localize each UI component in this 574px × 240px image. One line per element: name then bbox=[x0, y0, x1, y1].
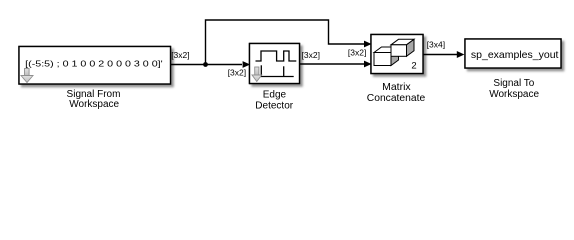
Matrix Concatenate icon: lower-left cuboid bbox=[374, 47, 399, 66]
block name label Signal To Workspace bbox=[489, 78, 539, 100]
svg-text:Workspace: Workspace bbox=[489, 89, 539, 100]
gray down-arrow icon in Signal From Workspace bbox=[21, 69, 33, 83]
svg-text:[3x2]: [3x2] bbox=[171, 50, 189, 60]
block name label Signal From Workspace bbox=[67, 89, 121, 110]
wire Edge Detector to Matrix Concatenate input 2 bbox=[300, 61, 372, 68]
wire Matrix Concatenate to Signal To Workspace bbox=[423, 51, 464, 58]
Edge Detector icon: output baseline bbox=[255, 76, 294, 78]
gray down-arrow icon in Edge Detector bbox=[252, 67, 262, 82]
svg-text:Matrix: Matrix bbox=[382, 81, 411, 93]
wire Signal From Workspace to Edge Detector bbox=[171, 61, 251, 68]
block Edge Detector bbox=[250, 44, 300, 84]
svg-text:[(-5:5) ; 0 1 0 0 2 0 0 0 3 0: [(-5:5) ; 0 1 0 0 2 0 0 0 3 0 0]' bbox=[25, 59, 163, 69]
svg-text:Workspace: Workspace bbox=[69, 99, 119, 110]
Edge Detector icon: input square wave bbox=[256, 51, 297, 61]
block Signal To Workspace bbox=[465, 39, 561, 68]
svg-text:Signal To: Signal To bbox=[493, 78, 534, 89]
svg-text:Detector: Detector bbox=[255, 100, 293, 111]
Matrix Concatenate icon: upper-right cuboid bbox=[391, 39, 414, 56]
svg-text:Edge: Edge bbox=[263, 90, 287, 101]
svg-text:[3x2]: [3x2] bbox=[302, 50, 320, 60]
block name label Matrix Concatenate bbox=[367, 81, 426, 104]
svg-text:[3x2]: [3x2] bbox=[348, 47, 366, 57]
block name label Edge Detector bbox=[255, 90, 293, 112]
svg-text:2: 2 bbox=[411, 60, 416, 71]
svg-text:[3x4]: [3x4] bbox=[427, 40, 445, 50]
svg-text:Concatenate: Concatenate bbox=[367, 93, 426, 104]
svg-text:sp_examples_yout: sp_examples_yout bbox=[471, 49, 559, 61]
Edge Detector icon: impulse 1 bbox=[260, 65, 262, 76]
junction node at branch bbox=[203, 62, 208, 67]
Edge Detector icon: impulse 2 bbox=[283, 66, 285, 76]
block Signal From Workspace bbox=[19, 47, 171, 85]
svg-text:[3x2]: [3x2] bbox=[228, 68, 246, 78]
block Matrix Concatenate bbox=[371, 35, 423, 74]
wire branch from junction over the top to Matrix Concatenate input 1 bbox=[206, 20, 372, 65]
